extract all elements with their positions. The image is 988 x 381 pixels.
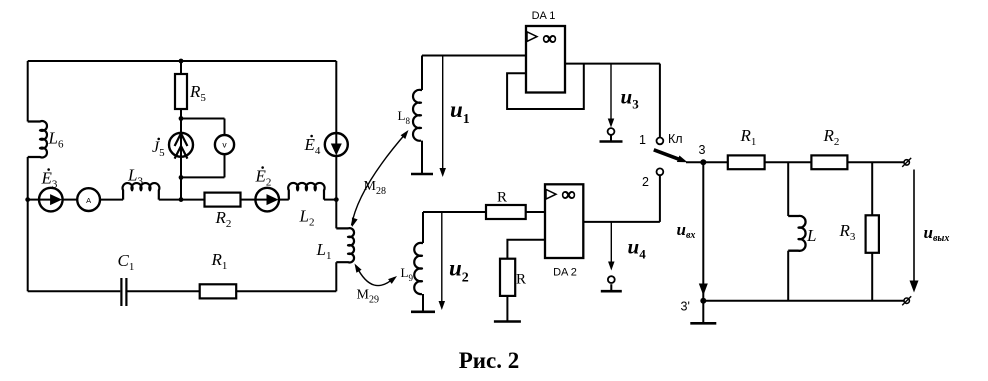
svg-text:DA 1: DA 1: [532, 10, 556, 22]
svg-text:Рис. 2: Рис. 2: [459, 348, 520, 373]
svg-text:3': 3': [681, 300, 690, 314]
svg-text:A: A: [86, 196, 91, 205]
svg-text:3: 3: [699, 143, 706, 157]
svg-text:R: R: [497, 190, 507, 206]
svg-text:2: 2: [642, 175, 649, 189]
svg-text:L: L: [806, 226, 816, 245]
svg-text:1: 1: [639, 133, 646, 147]
svg-text:DA 2: DA 2: [553, 267, 577, 279]
svg-text:R: R: [516, 272, 526, 288]
svg-text:∞: ∞: [562, 184, 576, 205]
svg-text:∞: ∞: [543, 28, 557, 49]
svg-text:Кл: Кл: [668, 132, 683, 146]
